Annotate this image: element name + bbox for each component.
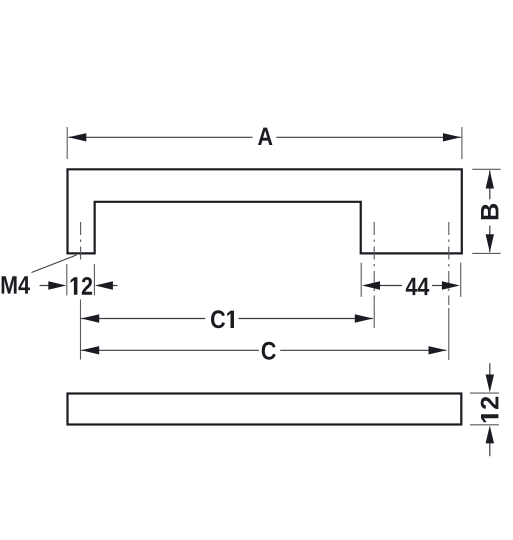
side 12 top outside arrow [489, 363, 491, 377]
label B rotated [481, 204, 498, 219]
dimension 44 line right segment + arrow [432, 285, 444, 287]
dimension C1 arrow right [355, 314, 373, 322]
dimension 12 extension line left [66, 264, 68, 296]
side label 12 rotated [481, 397, 499, 422]
right leg centerline 1 (dash-dot) [373, 222, 375, 297]
dimension B arrow down [486, 234, 494, 252]
dimension C1 line left segment [81, 318, 205, 320]
side 12 extension line bottom [470, 424, 499, 426]
label 44 [406, 278, 429, 295]
right leg centerline 2 (dash-dot) [448, 222, 450, 305]
dimension C1 arrow left [81, 314, 99, 322]
dimension A arrow right [443, 133, 461, 141]
right hole extension line 1 (solid, for C1) [373, 296, 375, 328]
dimension C line left segment [81, 349, 259, 351]
dimension C1 line right segment [239, 318, 373, 320]
label C1 [211, 310, 234, 328]
handle front view outline [68, 169, 462, 253]
dimension A extension line left [66, 127, 68, 159]
dimension 44 extension line left [360, 263, 362, 297]
dimension C line right segment [280, 349, 446, 351]
label C [262, 342, 276, 360]
right hole extension line 2 (solid, for C) [448, 308, 450, 360]
dimension B arrow up [486, 171, 494, 189]
dimension B line upper segment [489, 171, 491, 200]
dimension B extension line top [472, 168, 500, 170]
dimension C arrow left [81, 346, 99, 354]
dimension A arrow left [68, 133, 86, 141]
dimension 12 right outside arrow [110, 285, 118, 287]
dimension A line left segment [68, 136, 252, 138]
side 12 extension line top [470, 392, 499, 394]
dimension 44 line left segment + arrow [378, 285, 403, 287]
label 12 [71, 277, 93, 295]
label A [258, 128, 272, 145]
left leg centerline (dash-dot) [80, 222, 82, 263]
dimension B extension line bottom [472, 252, 500, 254]
dimension 44 extension line right [460, 263, 462, 297]
dimension C arrow right [429, 346, 447, 354]
label M4 [2, 276, 30, 293]
dimension 12 left outside arrow [40, 285, 51, 287]
dimension B line lower segment [489, 226, 491, 253]
side 12 bottom outside arrow [489, 441, 491, 456]
dimension 12 extension line right [93, 264, 95, 296]
left hole extension line (solid, for C1/C) [80, 300, 82, 360]
dimension A extension line right [461, 127, 463, 159]
dimension A line right segment [276, 136, 461, 138]
side view bar [68, 394, 462, 425]
M4 leader line [32, 255, 77, 273]
